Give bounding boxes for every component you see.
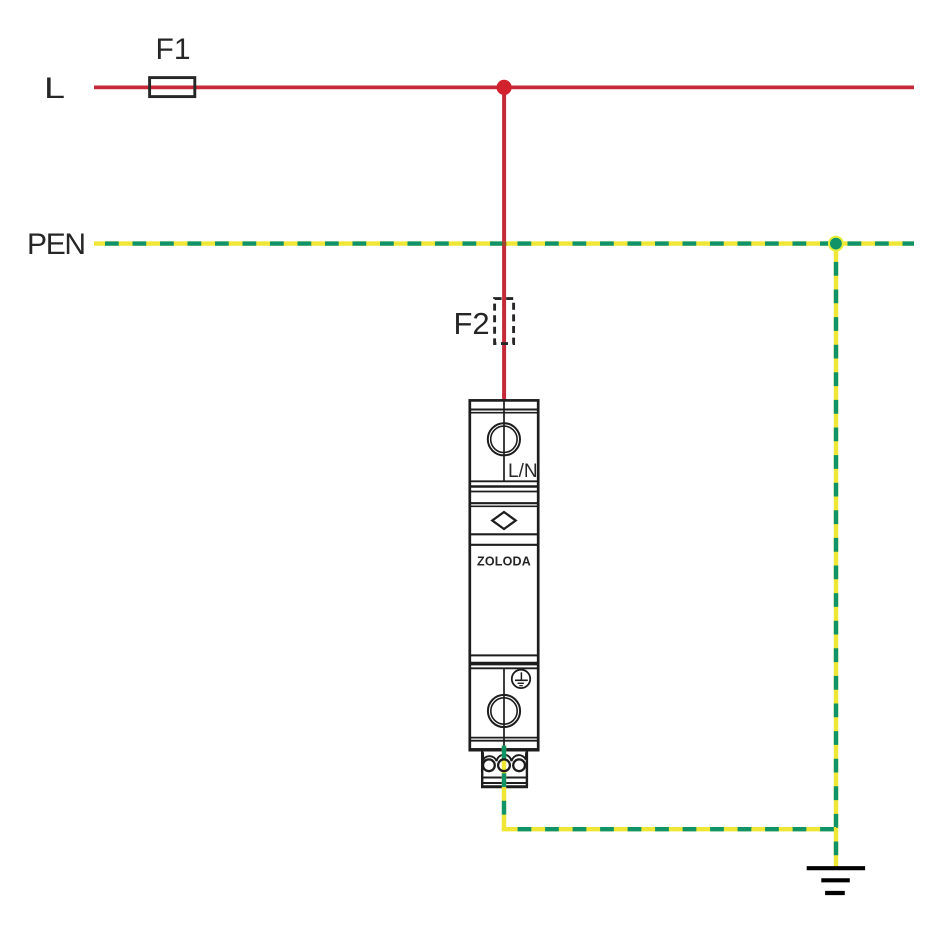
svg-text:ZOLODA: ZOLODA [477,555,531,569]
svg-text:L/N: L/N [508,461,538,482]
svg-text:PEN: PEN [27,228,85,261]
svg-text:F1: F1 [156,33,191,66]
svg-text:L: L [44,72,65,105]
svg-text:F2: F2 [454,306,490,341]
